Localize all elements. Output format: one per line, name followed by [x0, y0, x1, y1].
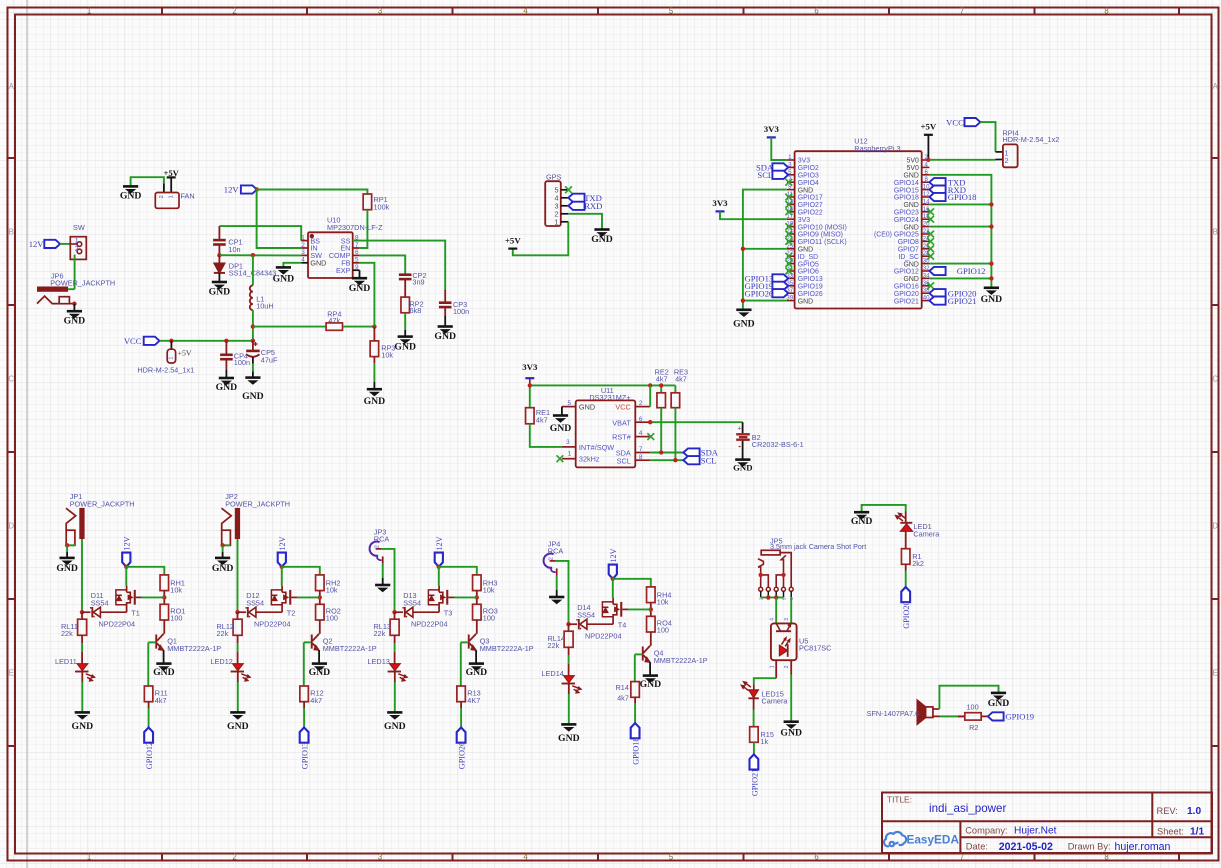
svg-text:GND: GND — [558, 733, 580, 744]
no-connect X U11 pin1 — [557, 455, 564, 462]
no-connect X GPS pin5 — [565, 186, 572, 193]
wire U12 GND left vertical — [743, 190, 787, 310]
junction JP5 bus b — [774, 595, 778, 599]
svg-text:2: 2 — [639, 400, 643, 407]
svg-text:GND: GND — [309, 667, 331, 678]
wire JP3 signal — [382, 549, 395, 612]
wire 12V to RH2 — [282, 567, 320, 575]
svg-text:3V3: 3V3 — [712, 198, 728, 208]
net flag TXD (U12) — [929, 177, 965, 187]
resistor RH4 10k — [647, 587, 672, 607]
wire VCC row — [160, 340, 253, 342]
svg-text:+5V: +5V — [921, 122, 937, 132]
svg-text:6: 6 — [355, 249, 359, 256]
wire RP4 left — [253, 326, 325, 328]
junction GND left r19 — [741, 298, 745, 302]
svg-text:T3: T3 — [444, 608, 453, 617]
svg-text:2: 2 — [75, 246, 79, 253]
ground GND (B2) — [733, 460, 752, 473]
wire SW pin2 to JP6 — [74, 255, 76, 290]
svg-text:GND: GND — [903, 202, 918, 209]
junction 12V ch4 — [611, 577, 615, 581]
svg-text:NPD22P04: NPD22P04 — [99, 620, 136, 629]
svg-text:3V3: 3V3 — [798, 158, 810, 165]
capacitor CP3 100n — [439, 290, 469, 326]
svg-text:3: 3 — [378, 6, 382, 15]
svg-text:4: 4 — [523, 6, 528, 15]
svg-text:GPIO11 (SCLK): GPIO11 (SCLK) — [798, 239, 847, 246]
svg-text:LED13: LED13 — [368, 657, 390, 666]
svg-text:8: 8 — [1104, 6, 1108, 15]
svg-text:3: 3 — [784, 618, 790, 621]
wire RO to Q3 collector — [476, 620, 478, 634]
no-connect X U12 right pin row 11 — [927, 238, 934, 245]
svg-text:GND: GND — [310, 259, 326, 268]
wire 12V to T1 source — [125, 567, 127, 586]
no-connect X U12 right pin row 17 — [927, 282, 934, 289]
wire RE2 to SDA row — [660, 408, 662, 453]
svg-text:DS3231MZ+: DS3231MZ+ — [589, 393, 630, 402]
svg-text:GND: GND — [903, 276, 918, 283]
svg-text:SCL: SCL — [701, 455, 717, 465]
wire JP5 to U5 pin4 — [775, 597, 777, 623]
inductor L1 10uH — [250, 255, 274, 310]
ground GND (U12 left) — [733, 310, 755, 330]
resistor RH2 10k — [316, 575, 341, 595]
transistor Q2 MMBT2222A-1P — [311, 634, 377, 664]
svg-text:POWER_JACKPTH: POWER_JACKPTH — [225, 500, 290, 509]
svg-text:GND: GND — [798, 247, 813, 254]
ground GND (RP3) — [364, 389, 386, 407]
svg-text:GPIO20: GPIO20 — [894, 291, 919, 298]
resistor RL14 22k — [548, 624, 574, 650]
svg-text:1: 1 — [169, 356, 175, 359]
resistor RL13 22k — [374, 612, 400, 638]
svg-text:ID_SC: ID_SC — [899, 254, 919, 261]
junction drain/diode ch4 — [566, 622, 570, 626]
svg-text:NPD22P04: NPD22P04 — [411, 620, 448, 629]
svg-text:GND: GND — [550, 423, 572, 434]
ground GND (JP3) — [375, 585, 390, 592]
resistor RL12 22k — [217, 612, 243, 638]
junction drain/diode ch3 — [392, 610, 396, 614]
ground GND (U10 EXP) — [349, 270, 371, 294]
net flag 12V (ch3) — [435, 536, 445, 566]
svg-text:3: 3 — [378, 852, 382, 861]
svg-text:6: 6 — [814, 852, 818, 861]
svg-text:GND: GND — [120, 191, 142, 202]
wire RL to LED ch4 — [568, 647, 570, 675]
resistor RO2 100 — [316, 604, 341, 622]
svg-text:GPIO12: GPIO12 — [145, 742, 154, 769]
net flag VCC (RPI4) — [946, 117, 980, 127]
wire 12V to RH3 — [439, 567, 477, 575]
no-connect X U12 right pin row 12 — [927, 245, 934, 252]
svg-text:GND: GND — [903, 261, 918, 268]
switch SW — [70, 223, 86, 260]
svg-text:GND: GND — [988, 698, 1010, 709]
wire VCC riser U11 — [649, 385, 651, 406]
svg-text:4k7: 4k7 — [617, 694, 629, 703]
svg-text:GND: GND — [364, 396, 386, 407]
svg-text:9: 9 — [355, 264, 359, 271]
svg-text:Sheet:: Sheet: — [1157, 827, 1184, 837]
wire LED to GND ch4 — [568, 684, 570, 725]
resistor R14 4k7 — [616, 682, 640, 703]
ground GND (Q1) — [153, 664, 175, 678]
svg-text:GPIO23: GPIO23 — [894, 210, 919, 217]
transistor T3 NPD22P04 — [411, 586, 454, 629]
net flag SCL (U12) — [757, 170, 788, 180]
svg-text:GND: GND — [72, 721, 94, 732]
svg-text:GPS: GPS — [546, 173, 562, 182]
net flag 12V (SW) — [29, 239, 60, 249]
svg-text:1: 1 — [75, 238, 79, 245]
svg-text:A: A — [9, 82, 15, 91]
wire RO to Q1 collector — [163, 620, 165, 634]
svg-text:GPIO17: GPIO17 — [798, 195, 823, 202]
wire RL to LED ch2 — [237, 635, 239, 663]
svg-text:T2: T2 — [287, 608, 296, 617]
wire RL to LED ch1 — [81, 635, 83, 663]
ic U10 MP2307DN-LF-Z — [301, 216, 383, 278]
resistor RP3 10k — [370, 327, 395, 360]
no-connect X U11 RST# — [647, 433, 654, 440]
svg-text:GND: GND — [384, 721, 406, 732]
resistor R2 100 — [958, 702, 988, 732]
svg-text:hujer.roman: hujer.roman — [1115, 841, 1171, 853]
no-connect X U12 right pin row 8 — [927, 216, 934, 223]
svg-text:GPIO18: GPIO18 — [632, 738, 641, 765]
svg-text:4: 4 — [301, 257, 305, 264]
wire T4 gate — [628, 608, 651, 610]
svg-text:VBAT: VBAT — [612, 418, 631, 427]
capacitor CP4 100n — [220, 341, 250, 378]
svg-text:RCA: RCA — [548, 547, 564, 556]
svg-text:SS54: SS54 — [246, 599, 264, 608]
wire 12V to RP1 top — [257, 190, 368, 195]
wire U10 GND pin4 — [283, 263, 301, 268]
wire 3V3 node U11 — [530, 378, 676, 408]
svg-text:A: A — [1213, 82, 1219, 91]
svg-text:4k7: 4k7 — [310, 696, 322, 705]
junction GND left r12 — [741, 247, 745, 251]
no-connect X U12 right pin row 10 — [927, 231, 934, 238]
net flag RXD (U12) — [929, 185, 966, 195]
wire RH2 to gate node — [319, 591, 321, 605]
svg-text:3V3: 3V3 — [798, 217, 810, 224]
ground GND (RP2) — [394, 337, 416, 353]
svg-text:GND: GND — [212, 563, 234, 574]
svg-text:5: 5 — [669, 6, 674, 15]
resistor RP1 100k — [363, 194, 390, 211]
no-connect X U12 left pin row 14 — [785, 260, 792, 267]
net flag GPIO21 (JP5) — [750, 754, 760, 796]
junction SCL RE3 — [673, 458, 677, 462]
svg-text:1: 1 — [555, 218, 559, 227]
svg-text:100n: 100n — [453, 307, 469, 316]
svg-text:100n: 100n — [234, 358, 250, 367]
svg-text:2: 2 — [232, 6, 236, 15]
svg-text:GPIO5: GPIO5 — [798, 261, 819, 268]
svg-text:Camera: Camera — [762, 697, 789, 706]
wire RE1 to INT pin — [530, 424, 562, 447]
wire JP4 signal — [556, 561, 569, 624]
svg-text:+5V: +5V — [505, 235, 521, 245]
svg-text:VCC: VCC — [946, 117, 964, 127]
wire Q1 base — [148, 642, 155, 686]
svg-text:B: B — [1213, 227, 1218, 236]
wire R1 to flag — [905, 564, 907, 587]
svg-text:R14: R14 — [616, 683, 629, 692]
pin lead FAN pin2 — [163, 183, 165, 192]
wire T1 gate — [142, 596, 165, 598]
wire RP2 to GND — [404, 313, 406, 337]
ic U11 DS3231MZ+ — [562, 386, 650, 467]
svg-text:+5V: +5V — [163, 168, 179, 178]
no-connect X U12 right pin row 13 — [927, 253, 934, 260]
svg-text:MMBT2222A-1P: MMBT2222A-1P — [480, 644, 534, 653]
svg-text:GPIO10 (MOSI): GPIO10 (MOSI) — [798, 224, 847, 231]
capacitor CP5 47uF polarized — [246, 341, 278, 378]
resistor R15 1k — [750, 727, 774, 747]
svg-text:VCC: VCC — [124, 336, 142, 346]
wire T2 gate — [297, 596, 320, 598]
connector JP6 POWER_JACKPTH — [37, 271, 115, 303]
svg-text:GPIO7: GPIO7 — [898, 247, 919, 254]
wire SW pin node — [219, 254, 301, 256]
junction 12V ch3 — [437, 565, 441, 569]
svg-text:GPIO12: GPIO12 — [894, 269, 919, 276]
net flag GPIO20 (LED1) — [901, 587, 911, 629]
svg-text:RXD: RXD — [584, 201, 602, 211]
wire LED to GND ch2 — [237, 672, 239, 713]
svg-text:GND: GND — [466, 667, 488, 678]
wire SDA row — [650, 452, 683, 454]
wire R12 to flag — [303, 702, 305, 728]
net flag GPIO26 (U12) — [745, 288, 789, 298]
svg-text:2: 2 — [301, 242, 305, 249]
ground GND (U12 right) — [981, 288, 1003, 305]
svg-text:22k: 22k — [61, 629, 73, 638]
net flag GPIO19 (buzzer) — [988, 712, 1034, 722]
power flag 3V3 (U12 pin1) — [764, 124, 780, 137]
ground GND (buzzer) — [988, 693, 1010, 709]
svg-text:SS54: SS54 — [91, 599, 109, 608]
resistor RE1 4k7 — [526, 408, 551, 425]
svg-text:2: 2 — [549, 557, 555, 560]
svg-text:4: 4 — [770, 618, 776, 621]
connector JP3 RCA — [370, 527, 390, 563]
svg-text:6: 6 — [814, 6, 818, 15]
svg-text:PC817SC: PC817SC — [799, 644, 831, 653]
net flag VCC — [124, 336, 160, 346]
wire LED to GND ch3 — [394, 672, 396, 713]
ground GND (CP3) — [434, 327, 456, 342]
junction SDA RE2 — [659, 450, 663, 454]
svg-text:C: C — [1212, 374, 1218, 383]
svg-text:GPIO27: GPIO27 — [798, 202, 823, 209]
svg-text:POWER_JACKPTH: POWER_JACKPTH — [50, 278, 115, 287]
optocoupler U5 PC817SC — [770, 618, 832, 669]
svg-text:GPIO21: GPIO21 — [750, 769, 759, 796]
led LED12 — [211, 657, 251, 681]
svg-text:10k: 10k — [657, 598, 669, 607]
svg-text:E: E — [9, 668, 14, 677]
svg-text:6k8: 6k8 — [410, 306, 422, 315]
wire SCL row — [650, 459, 683, 461]
net flag SDA (U11) — [683, 448, 718, 458]
wire COMP to CP2 — [360, 255, 406, 273]
svg-text:47k: 47k — [328, 316, 340, 325]
resistor RE2 4k7 — [655, 367, 669, 407]
no-connect X U12 left pin row 10 — [785, 231, 792, 238]
net flag GPIO21 (U12) — [929, 296, 976, 306]
svg-text:GND: GND — [780, 727, 802, 738]
no-connect X U12 left pin row 5 — [785, 194, 792, 201]
svg-text:4k7: 4k7 — [656, 374, 668, 383]
ground GND (GPS) — [591, 230, 613, 246]
wire SS to CP3 — [353, 241, 446, 290]
net flag SDA (U12) — [756, 163, 788, 173]
svg-text:GND: GND — [273, 273, 295, 284]
wire U5 pin2 to GND — [790, 660, 792, 721]
svg-text:VCC: VCC — [615, 402, 630, 411]
svg-text:INT#/SQW: INT#/SQW — [579, 443, 614, 452]
wire Q2 base — [304, 642, 311, 686]
svg-text:GPIO12: GPIO12 — [957, 266, 986, 276]
junction L1 top node — [251, 253, 255, 257]
svg-text:5V0: 5V0 — [907, 165, 919, 172]
svg-text:GPIO14: GPIO14 — [894, 180, 919, 187]
wire R11 to flag — [148, 702, 150, 728]
svg-text:12V: 12V — [609, 548, 618, 562]
ground GND (DP1) — [209, 282, 231, 297]
junction JP5 bus a — [766, 595, 770, 599]
svg-text:1: 1 — [568, 451, 572, 458]
svg-text:3: 3 — [301, 249, 305, 256]
svg-text:GND: GND — [434, 331, 456, 342]
svg-text:4k7: 4k7 — [536, 415, 548, 424]
capacitor CP1 10n — [213, 226, 243, 255]
svg-text:GND: GND — [56, 563, 78, 574]
svg-text:1: 1 — [301, 234, 305, 241]
svg-text:GND: GND — [798, 187, 813, 194]
transistor Q1 MMBT2222A-1P — [155, 634, 221, 664]
svg-text:1k: 1k — [761, 737, 769, 746]
svg-text:6: 6 — [925, 169, 929, 176]
svg-text:POWER_JACKPTH: POWER_JACKPTH — [70, 500, 135, 509]
svg-text:SFN-1407PA7.6: SFN-1407PA7.6 — [867, 709, 920, 718]
net flag GPIO13 (U12) — [745, 274, 789, 284]
pin lead JP1 to GND — [66, 545, 68, 557]
net flag TXD (GPS) — [568, 193, 602, 203]
resistor RH1 10k — [160, 575, 185, 595]
svg-text:E: E — [1213, 668, 1218, 677]
svg-text:GPIO18: GPIO18 — [948, 192, 977, 202]
resistor RH3 10k — [473, 575, 498, 595]
svg-text:RaspberryPi 3: RaspberryPi 3 — [854, 144, 900, 153]
svg-text:12V: 12V — [224, 184, 240, 194]
power flag 3V3 (U11) — [522, 362, 538, 378]
svg-text:TITLE:: TITLE: — [887, 794, 912, 804]
no-connect X U12 left pin row 3 — [785, 179, 792, 186]
ground GND (LED ch4) — [558, 724, 580, 744]
svg-text:GND: GND — [798, 298, 813, 305]
wire 12V to RH1 — [126, 567, 164, 575]
svg-text:5: 5 — [355, 257, 359, 264]
svg-text:Date:: Date: — [966, 842, 988, 852]
resistor RE3 4k7 — [671, 367, 688, 407]
no-connect X U12 left pin row 13 — [785, 253, 792, 260]
ground GND (U5) — [780, 722, 802, 739]
svg-text:SS54: SS54 — [403, 599, 421, 608]
svg-text:GND: GND — [981, 294, 1003, 305]
wire buzzer to R2 — [940, 715, 965, 717]
net flag GPIO18 (ch4) — [631, 723, 641, 765]
wire buzzer top to GND — [939, 686, 998, 709]
svg-text:22k: 22k — [374, 629, 386, 638]
svg-text:1: 1 — [1005, 150, 1009, 157]
resistor RO3 100 — [473, 604, 498, 622]
connector RPI4 HDR-M-2.54_1x2 — [1003, 128, 1060, 167]
transistor Q4 MMBT2222A-1P — [642, 646, 708, 676]
net flag GPIO26 (ch3) — [457, 728, 467, 770]
svg-text:GPIO26: GPIO26 — [798, 291, 823, 298]
no-connect X U12 left pin row 11 — [785, 238, 792, 245]
pin lead JP2 to GND — [222, 545, 224, 557]
svg-text:GND: GND — [733, 319, 755, 330]
svg-text:22k: 22k — [217, 629, 229, 638]
svg-text:100: 100 — [657, 626, 669, 635]
svg-text:GPIO21: GPIO21 — [894, 298, 919, 305]
junction GND right r9 — [989, 224, 993, 228]
svg-text:32kHz: 32kHz — [579, 455, 600, 464]
power flag +5V (FAN) — [163, 168, 179, 193]
svg-text:NPD22P04: NPD22P04 — [585, 632, 622, 641]
buzzer SFN-1407PA7.6 — [867, 700, 941, 724]
svg-text:7: 7 — [639, 446, 643, 453]
wire JP4 shield to GND — [556, 576, 558, 597]
ground GND (Q4) — [640, 676, 662, 690]
junction 12V flag — [255, 187, 259, 191]
wire GPS pin2 to GND — [568, 214, 602, 230]
svg-text:3n9: 3n9 — [412, 278, 424, 287]
svg-text:MMBT2222A-1P: MMBT2222A-1P — [323, 644, 377, 653]
svg-text:GND: GND — [851, 516, 873, 527]
svg-text:3: 3 — [566, 439, 570, 446]
svg-text:100k: 100k — [374, 202, 390, 211]
ground GND (JP2) — [212, 558, 234, 574]
wire L1 bottom to VCC node — [252, 310, 254, 341]
svg-text:100: 100 — [170, 614, 182, 623]
resistor R11 4k7 — [144, 686, 167, 705]
net flag GPIO19 (U12) — [745, 281, 789, 291]
no-connect X U12 right pin row 7 — [927, 208, 934, 215]
wire 5V0 to RPI4 pin2 — [929, 159, 1003, 161]
wire JP2 center pin down — [237, 539, 239, 612]
svg-text:100: 100 — [483, 614, 495, 623]
led LED15 Camera — [741, 682, 788, 706]
ground GND (U11 pin5) — [550, 416, 572, 434]
ground GND (CP5) — [242, 378, 264, 403]
svg-text:T1: T1 — [131, 608, 140, 617]
svg-text:RCA: RCA — [374, 535, 390, 544]
svg-text:3V3: 3V3 — [764, 124, 780, 134]
wire 12V to T4 source — [612, 579, 614, 598]
connector JP2 POWER_JACKPTH — [222, 492, 291, 545]
ground GND (LED ch3) — [384, 712, 406, 732]
